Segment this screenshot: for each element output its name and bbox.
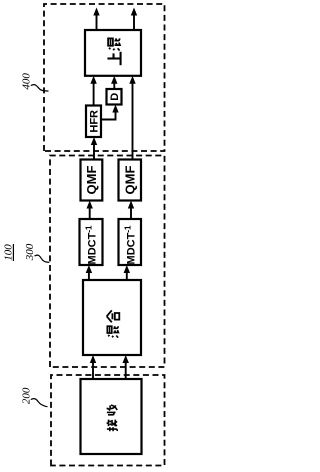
wire output lower xyxy=(131,8,137,31)
wire 接收→混合 lower xyxy=(123,355,129,379)
svg-text:QMF: QMF xyxy=(123,166,138,195)
dashed box 400 (upmix section) xyxy=(44,4,165,151)
wire output upper xyxy=(93,8,99,31)
svg-text:400: 400 xyxy=(20,73,32,90)
wire D→上混 xyxy=(111,76,117,89)
wire 接收→混合 upper xyxy=(90,355,96,379)
text 混合 xyxy=(107,310,120,337)
svg-text:D: D xyxy=(109,93,121,101)
box MDCT-1 upper xyxy=(80,219,103,265)
box 混合 (mixing) xyxy=(83,280,141,355)
text 上混 xyxy=(107,38,120,65)
label 200 with leader xyxy=(20,387,47,407)
text 接收 xyxy=(107,405,118,431)
svg-text:200: 200 xyxy=(20,387,32,404)
wire MDCT→QMF upper xyxy=(87,201,93,220)
label 400 with leader xyxy=(20,73,48,91)
svg-text:300: 300 xyxy=(24,243,36,261)
box D (decorrelator) xyxy=(107,89,122,105)
wire 混合→MDCT-1 upper xyxy=(86,265,92,280)
wire MDCT→QMF lower xyxy=(128,201,134,220)
box QMF lower xyxy=(119,160,142,201)
svg-text:100: 100 xyxy=(3,244,15,261)
label 300 with leader xyxy=(24,243,49,262)
svg-text:HFR: HFR xyxy=(89,110,101,133)
box MDCT-1 lower xyxy=(119,219,142,265)
wire HFR→D (L-shape) xyxy=(101,105,119,120)
box HFR xyxy=(86,106,101,138)
wire HFR→上混 xyxy=(90,76,96,106)
dashed box 200 (receiver section) xyxy=(51,375,165,466)
svg-text:QMF: QMF xyxy=(84,166,99,195)
box 接收 (receive) xyxy=(81,379,142,454)
wire 混合→MDCT-1 lower xyxy=(124,265,130,280)
wire QMF→HFR xyxy=(91,137,97,160)
dashed box 300 (core decoder section) xyxy=(50,156,165,368)
box 上混 (upmix) xyxy=(85,30,141,76)
box QMF upper xyxy=(81,160,103,201)
wire QMF lower→上混 (long) xyxy=(129,76,135,160)
label 100 (underlined figure number) xyxy=(3,244,15,261)
